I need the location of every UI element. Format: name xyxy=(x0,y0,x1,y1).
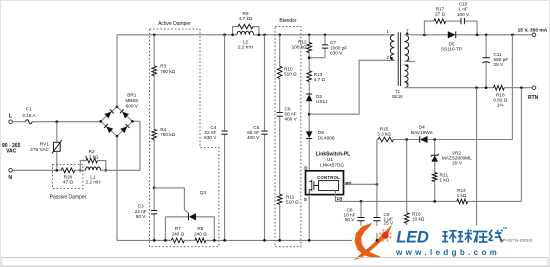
wire C3 xyxy=(153,188,155,241)
wire output line xyxy=(405,34,533,36)
svg-text:750 kΩ: 750 kΩ xyxy=(160,69,175,74)
wire R2 branch down xyxy=(98,161,106,171)
resistor R12 xyxy=(292,40,312,53)
wire snubber xyxy=(424,21,477,35)
label LinkSwitch-PL xyxy=(316,152,350,168)
svg-text:PI-6171a-102910: PI-6171a-102910 xyxy=(503,238,532,242)
terminal output xyxy=(518,27,548,36)
svg-text:510 Ω: 510 Ω xyxy=(284,71,297,76)
wire bridge minus xyxy=(116,136,118,240)
node R3 top xyxy=(153,33,156,36)
fuse F1 xyxy=(22,106,36,123)
node drain-pin2 xyxy=(308,113,311,116)
zener VR2 xyxy=(431,140,472,173)
resistor R18 xyxy=(493,85,507,107)
svg-text:1%: 1% xyxy=(497,103,504,108)
node S bottom xyxy=(308,239,311,242)
svg-text:630 V: 630 V xyxy=(204,135,217,140)
svg-text:4.7 Ω: 4.7 Ω xyxy=(314,77,326,82)
capacitor C7 xyxy=(309,35,347,58)
wire L1 lead xyxy=(75,169,86,171)
svg-text:275 VAC: 275 VAC xyxy=(30,147,49,153)
diode D6 xyxy=(306,130,335,140)
pin BP xyxy=(344,181,377,186)
node L2 right xyxy=(258,33,261,36)
wire pin3 stub xyxy=(405,61,415,63)
wire FB right xyxy=(468,88,522,202)
svg-text:VAC: VAC xyxy=(6,149,17,155)
resistor R13 xyxy=(307,71,326,82)
label 90-265 VAC xyxy=(2,143,21,155)
wire N to bridge xyxy=(101,121,141,170)
svg-text:F1: F1 xyxy=(26,106,32,111)
svg-text:3.3 kΩ: 3.3 kΩ xyxy=(377,132,391,137)
svg-text:2.2 mH: 2.2 mH xyxy=(238,45,253,50)
diode D4 xyxy=(411,125,433,143)
svg-text:100 kΩ: 100 kΩ xyxy=(292,45,307,50)
wire R3R4 chain xyxy=(153,35,155,188)
resistor R20 xyxy=(61,168,74,185)
bleeder box xyxy=(275,18,301,247)
pin FB xyxy=(336,191,457,202)
capacitor C4 xyxy=(204,35,228,241)
wire sense vertical xyxy=(476,88,478,241)
wire BP to bias xyxy=(377,140,378,185)
svg-text:100 V: 100 V xyxy=(457,12,470,17)
resistor R10 xyxy=(277,66,297,78)
node snubber left xyxy=(423,33,426,36)
wire Q3 gate xyxy=(154,188,188,214)
svg-text:4.7 kΩ: 4.7 kΩ xyxy=(239,16,253,21)
svg-text:15 V, 350 mA: 15 V, 350 mA xyxy=(518,27,548,33)
passive damper box xyxy=(50,165,87,201)
resistor R8 xyxy=(194,226,207,243)
inductor L1 xyxy=(85,167,100,185)
node sense top xyxy=(511,33,514,36)
transformer T1 secondary lower xyxy=(405,57,411,87)
node L2 left xyxy=(231,33,234,36)
logo text LED xyxy=(396,228,429,246)
svg-text:BAV19WS: BAV19WS xyxy=(411,130,433,135)
svg-text:1 kΩ: 1 kΩ xyxy=(440,178,450,183)
label T1 xyxy=(392,89,403,99)
wire R2 branch up xyxy=(80,161,86,171)
node clamp xyxy=(308,56,311,59)
svg-text:400 V: 400 V xyxy=(247,135,260,140)
node C11 top xyxy=(485,33,488,36)
transformer T1 primary xyxy=(386,29,394,60)
svg-text:LED: LED xyxy=(396,228,429,246)
wire R21 bottom xyxy=(434,182,436,202)
wire RV1 bottom xyxy=(56,152,58,171)
svg-text:LNK457DG: LNK457DG xyxy=(320,162,344,167)
resistor R15 xyxy=(377,127,393,142)
node L1-R2 xyxy=(104,169,107,172)
svg-text:630 V: 630 V xyxy=(330,50,343,55)
svg-text:50 V: 50 V xyxy=(345,217,356,222)
svg-text:DL4006: DL4006 xyxy=(318,135,335,140)
svg-text:US1J: US1J xyxy=(316,99,327,104)
resistor R7 xyxy=(171,226,184,243)
node L-RV1 xyxy=(55,120,58,123)
svg-text:S: S xyxy=(304,197,307,202)
transformer T1 core xyxy=(398,32,400,86)
wire bias line1 xyxy=(394,139,420,141)
node gate xyxy=(153,187,156,190)
thyristor Q3 xyxy=(165,190,214,240)
svg-text:RV1: RV1 xyxy=(40,142,50,148)
node R20-R2 xyxy=(79,169,82,172)
resistor R21 xyxy=(432,172,449,182)
svg-text:750 kΩ: 750 kΩ xyxy=(160,132,175,137)
svg-text:240 Ω: 240 Ω xyxy=(194,231,207,236)
wire top rail xyxy=(117,34,394,36)
svg-text:L: L xyxy=(9,114,13,120)
wire drain chain xyxy=(308,35,310,171)
diode D5 xyxy=(441,32,462,52)
svg-text:SS110-TP: SS110-TP xyxy=(441,47,462,52)
capacitor C5 xyxy=(247,35,268,241)
svg-text:BR1: BR1 xyxy=(127,93,137,98)
node Q3 left xyxy=(164,239,167,242)
wire L input xyxy=(12,121,100,123)
node VR2 top xyxy=(433,138,436,141)
transformer T1 secondary upper xyxy=(405,28,410,62)
svg-text:25 V: 25 V xyxy=(494,62,505,67)
svg-text:8: 8 xyxy=(406,81,409,86)
resistor R2 xyxy=(85,149,99,163)
node C8 bottom xyxy=(360,239,363,242)
diode D2 xyxy=(306,94,327,104)
wire R9 branch xyxy=(233,27,259,35)
capacitor C3 xyxy=(135,204,158,219)
node R16 bottom xyxy=(405,239,408,242)
svg-text:N: N xyxy=(8,175,12,181)
capacitor C6 xyxy=(277,107,298,122)
svg-text:240 Ω: 240 Ω xyxy=(171,231,184,236)
svg-text:50 V: 50 V xyxy=(136,214,147,219)
bridge BR1 xyxy=(99,93,138,138)
node C7 top xyxy=(324,33,327,36)
svg-text:LinkSwitch-PL: LinkSwitch-PL xyxy=(316,152,350,158)
svg-text:Active Damper: Active Damper xyxy=(158,21,191,27)
svg-text:EE16: EE16 xyxy=(392,94,403,99)
node R16 top xyxy=(405,138,408,141)
svg-text:FB: FB xyxy=(337,196,343,201)
resistor R3 xyxy=(152,64,176,76)
logo swirl icon xyxy=(352,223,508,261)
resistor R14 xyxy=(457,188,468,204)
node C11 bottom xyxy=(485,86,488,89)
logo url xyxy=(395,248,500,257)
svg-text:4.7 kΩ: 4.7 kΩ xyxy=(85,154,99,159)
svg-text:400 V: 400 V xyxy=(285,117,298,122)
resistor R9 xyxy=(238,11,253,29)
svg-text:CONTROL: CONTROL xyxy=(317,175,340,180)
svg-text:47 Ω: 47 Ω xyxy=(63,180,74,185)
pin D xyxy=(304,166,307,171)
node C4 top xyxy=(223,33,226,36)
active damper box xyxy=(150,21,219,247)
capacitor C9 xyxy=(373,184,394,240)
svg-text:D: D xyxy=(304,166,307,171)
svg-text:TM: TM xyxy=(503,226,508,230)
node C3 bottom xyxy=(153,239,156,242)
node R11 bottom xyxy=(278,239,281,242)
resistor R17 xyxy=(434,6,446,23)
node C9 bottom xyxy=(376,239,379,242)
node BP xyxy=(376,183,379,186)
svg-text:Q3: Q3 xyxy=(200,190,207,196)
terminal L xyxy=(9,114,13,124)
varistor RV1 xyxy=(30,140,62,153)
node Q3 right xyxy=(213,239,216,242)
capacitor C11 xyxy=(482,35,508,88)
label PI number xyxy=(503,238,532,242)
node C5 bottom xyxy=(263,239,266,242)
resistor R16 xyxy=(404,140,424,241)
svg-text:600 V: 600 V xyxy=(126,104,139,109)
capacitor C8 xyxy=(344,201,365,240)
node sense bottom xyxy=(475,239,478,242)
inductor L2 xyxy=(237,31,254,49)
svg-text:RTN: RTN xyxy=(528,95,539,101)
node C8 top xyxy=(360,200,363,203)
svg-text:Bleeder: Bleeder xyxy=(279,18,297,24)
resistor R4 xyxy=(152,127,176,139)
svg-text:1: 1 xyxy=(386,29,389,34)
svg-text:U1: U1 xyxy=(327,157,333,162)
svg-text:BP: BP xyxy=(345,181,351,186)
node R12 top xyxy=(308,33,311,36)
svg-text:D5: D5 xyxy=(449,41,455,46)
svg-text:510 Ω: 510 Ω xyxy=(286,200,299,205)
svg-text:www.ledgb.com: www.ledgb.com xyxy=(395,248,500,257)
node R21-FB xyxy=(433,200,436,203)
wire bias line2 xyxy=(427,35,512,140)
wire N input xyxy=(12,169,61,171)
node R14 return xyxy=(520,86,523,89)
logo text CJK xyxy=(442,226,508,243)
svg-text:2.2 mH: 2.2 mH xyxy=(85,180,100,185)
svg-text:Passive Damper: Passive Damper xyxy=(50,194,87,200)
svg-text:1 kΩ: 1 kΩ xyxy=(457,193,467,198)
node N-RV1 xyxy=(55,169,58,172)
wire bridge plus xyxy=(116,35,118,107)
wire bleeder chain xyxy=(279,35,281,241)
capacitor C10 xyxy=(457,2,470,25)
terminal N xyxy=(8,169,12,181)
wire RTN line xyxy=(405,87,533,89)
node sense RTN xyxy=(475,86,478,89)
node C4 bottom xyxy=(223,239,226,242)
wire bottom rail xyxy=(117,239,477,241)
svg-text:25 V: 25 V xyxy=(384,220,395,225)
node C5 top xyxy=(263,33,266,36)
wire RV1 top xyxy=(56,122,58,143)
pin S xyxy=(304,195,309,241)
svg-text:7: 7 xyxy=(406,28,409,33)
svg-text:2: 2 xyxy=(386,55,389,60)
svg-text:27 Ω: 27 Ω xyxy=(435,11,446,16)
node R10 top xyxy=(278,33,281,36)
wire primary pin2 route xyxy=(309,60,394,114)
svg-text:MB6S: MB6S xyxy=(125,98,138,103)
svg-text:3.15 A: 3.15 A xyxy=(22,113,36,118)
svg-text:10 kΩ: 10 kΩ xyxy=(412,217,425,222)
terminal RTN xyxy=(528,86,539,101)
svg-text:20 V: 20 V xyxy=(452,161,463,166)
resistor R11 xyxy=(277,194,299,204)
node snubber right xyxy=(476,33,479,36)
op-amp U1 body xyxy=(306,171,344,195)
